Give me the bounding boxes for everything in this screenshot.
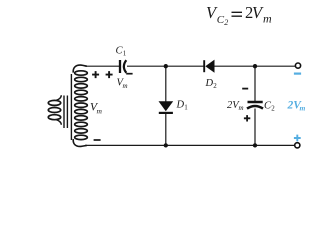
svg-text:2: 2	[213, 82, 217, 90]
terminal top-right	[295, 63, 300, 68]
minus sign right of C1	[126, 73, 132, 75]
svg-text:D: D	[176, 100, 185, 111]
svg-text:1: 1	[184, 104, 188, 112]
node junction bottom D1	[164, 143, 168, 147]
plus sign secondary top	[92, 71, 99, 78]
formula V_C2 = 2V_m	[206, 3, 272, 27]
svg-text:m: m	[123, 82, 128, 90]
wire D2 to top-right terminal	[215, 65, 296, 67]
svg-text:m: m	[239, 104, 244, 112]
diode D2	[204, 60, 214, 73]
wire C1 to D2	[127, 65, 204, 67]
svg-text:m: m	[97, 107, 103, 116]
terminal bottom-right	[295, 143, 300, 148]
wire C2 branch top	[254, 66, 256, 101]
wire bottom	[85, 144, 294, 146]
capacitor C2	[247, 102, 263, 109]
transformer core	[63, 96, 65, 129]
wire C2 branch bottom	[254, 109, 256, 146]
svg-text:m: m	[300, 104, 306, 113]
wire D1 branch bottom	[165, 114, 167, 146]
node junction top D1	[164, 64, 168, 68]
svg-text:2: 2	[224, 18, 228, 27]
capacitor C1	[120, 60, 126, 73]
svg-text:1: 1	[123, 50, 127, 58]
wire D1 branch top	[165, 66, 167, 101]
diode D1	[159, 101, 174, 113]
transformer primary winding	[48, 95, 61, 125]
minus sign secondary bottom	[94, 139, 101, 141]
blue plus bottom-right	[294, 135, 301, 142]
minus sign above C2	[242, 88, 248, 90]
node junction top C2	[253, 64, 257, 68]
svg-text:m: m	[263, 11, 272, 25]
svg-text:D: D	[205, 78, 214, 89]
transformer secondary winding	[71, 65, 87, 146]
node junction bottom C2	[253, 143, 257, 147]
wire top-left (coil to C1)	[86, 65, 119, 67]
blue minus top-right	[294, 72, 301, 74]
plus sign below C2	[244, 115, 250, 121]
plus sign C1 left	[106, 71, 113, 78]
svg-text:2: 2	[271, 105, 275, 113]
